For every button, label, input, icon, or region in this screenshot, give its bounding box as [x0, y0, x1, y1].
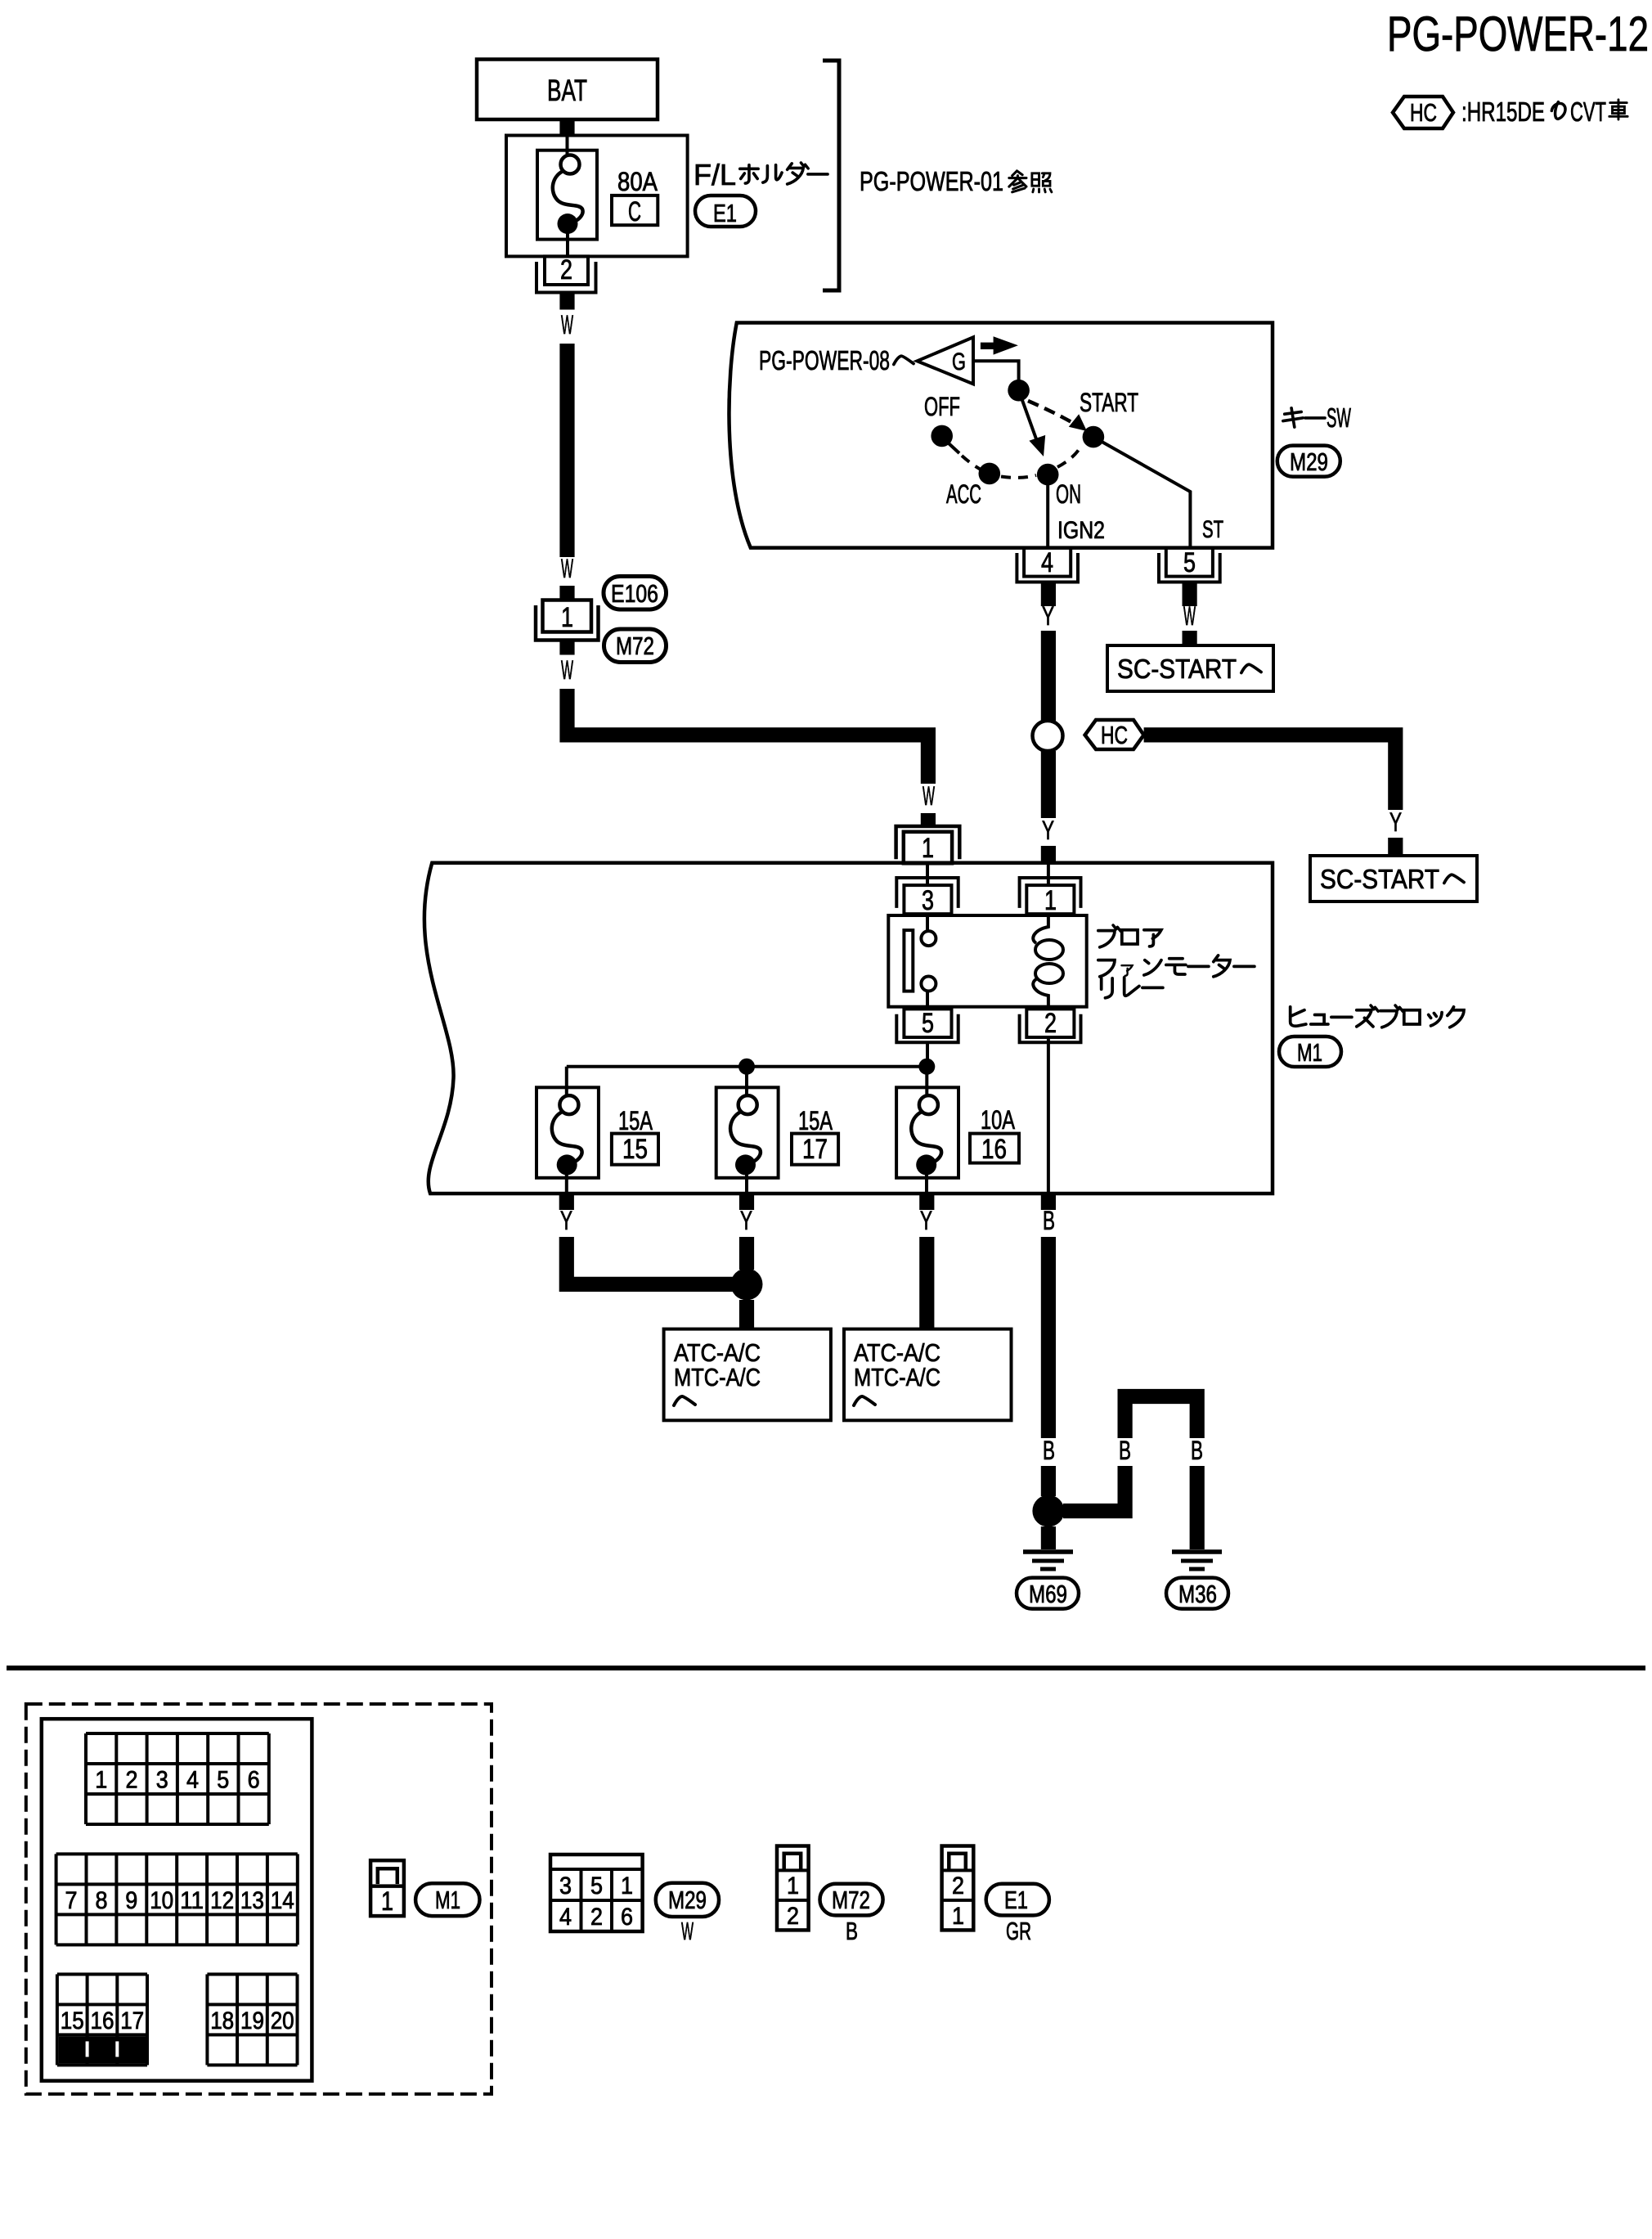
pin 4 connector IGN2 — [1017, 547, 1078, 582]
wire Y stub below pin 4 — [1041, 582, 1056, 607]
label GR under E1 — [1006, 1917, 1031, 1945]
contact ACC — [979, 463, 1001, 485]
svg-text:G: G — [952, 348, 966, 375]
svg-text:Y: Y — [560, 1206, 572, 1235]
svg-text:MTC-A/C: MTC-A/C — [674, 1363, 761, 1392]
svg-text:5: 5 — [922, 1008, 934, 1039]
svg-text:1: 1 — [1044, 885, 1057, 916]
contact ON — [1037, 464, 1059, 486]
switch arm dashed to START — [1028, 401, 1087, 431]
connector M72 oval — [604, 629, 667, 663]
svg-text:1: 1 — [561, 602, 573, 633]
connector M1 oval — [1279, 1036, 1341, 1067]
junction node bus/pin5 — [918, 1059, 935, 1075]
wire Y junction to ATC box — [739, 1300, 754, 1330]
svg-text:3: 3 — [922, 885, 934, 916]
arrow direction indicator — [981, 336, 1018, 354]
junction node B wires — [1032, 1495, 1064, 1527]
relay contact — [904, 915, 936, 1007]
svg-text:1: 1 — [381, 1886, 393, 1916]
label 15A fuse15 — [618, 1106, 653, 1135]
label Y — [1042, 816, 1054, 845]
relay pin 1 connector — [1020, 878, 1081, 916]
ground M69 — [1017, 1552, 1079, 1609]
svg-text:13: 13 — [240, 1887, 264, 1914]
label W under M29 — [681, 1917, 694, 1945]
svg-text:PG-POWER-08: PG-POWER-08 — [759, 345, 890, 375]
fuse bus line — [567, 1065, 927, 1068]
svg-text:80A: 80A — [617, 167, 658, 196]
wire bus to fuse 15 — [565, 1067, 568, 1098]
label W — [561, 655, 573, 685]
connector icon M72 pins 1 2 — [777, 1846, 809, 1931]
svg-text:PG-POWER-12: PG-POWER-12 — [1387, 7, 1649, 61]
triangle connector G — [917, 337, 973, 384]
label Y — [920, 1206, 932, 1235]
svg-text:HC: HC — [1101, 721, 1128, 749]
svg-text:PG-POWER-01: PG-POWER-01 — [860, 166, 1003, 196]
box SC-START (HC branch) — [1310, 856, 1477, 901]
label W — [561, 554, 573, 583]
svg-text:W: W — [923, 781, 935, 811]
connector M72 oval label — [820, 1884, 883, 1916]
svg-text:M29: M29 — [1290, 447, 1328, 476]
junction node bus/fuse17 — [738, 1059, 755, 1075]
svg-text:17: 17 — [120, 2007, 144, 2034]
svg-text:W: W — [681, 1917, 694, 1945]
wire Y fuse16 to ATC box 2 — [919, 1237, 934, 1329]
svg-text:W: W — [561, 554, 573, 583]
label Y — [1042, 601, 1054, 631]
svg-text:Y: Y — [740, 1206, 752, 1235]
svg-text:1: 1 — [787, 1873, 799, 1900]
svg-text:1: 1 — [621, 1873, 633, 1900]
label B arm1 — [1119, 1436, 1131, 1465]
connector icon M1 pin 1 — [370, 1860, 404, 1916]
label Y — [740, 1206, 752, 1235]
svg-text:2: 2 — [126, 1767, 138, 1794]
svg-text:M1: M1 — [1297, 1038, 1322, 1067]
svg-text:Y: Y — [920, 1206, 932, 1235]
HC tag hexagon — [1085, 720, 1144, 749]
label OFF — [924, 392, 960, 421]
contact START — [1083, 426, 1105, 448]
svg-text:15: 15 — [622, 1134, 648, 1165]
svg-text:6: 6 — [248, 1767, 260, 1794]
svg-text:2: 2 — [787, 1903, 799, 1930]
wire B junction to right arm — [1063, 1466, 1125, 1511]
label IGN2 — [1057, 517, 1105, 544]
battery BAT — [477, 60, 658, 120]
svg-text:15A: 15A — [798, 1106, 833, 1135]
fuse block layout box — [42, 1719, 312, 2080]
fuse layout grid 15-17 — [57, 1974, 147, 2065]
legend HC tag — [1393, 97, 1453, 128]
fuse 16 — [896, 1087, 958, 1194]
label W — [561, 310, 573, 339]
wire B stub below relay pin 2 — [1041, 1195, 1056, 1210]
svg-text:4: 4 — [1041, 547, 1053, 578]
separator line — [7, 1666, 1645, 1670]
fuse letter box C — [612, 196, 658, 227]
label 15A fuse17 — [798, 1106, 833, 1135]
wire pin2 inside block — [1047, 1037, 1050, 1194]
wire ON to IGN2 pin — [1046, 474, 1049, 548]
wire into relay pin 3 — [926, 865, 929, 885]
svg-text:3: 3 — [156, 1767, 168, 1794]
svg-text:ON: ON — [1056, 479, 1081, 509]
svg-text:E1: E1 — [713, 199, 737, 227]
svg-text:HC: HC — [1410, 98, 1437, 127]
fuse block box M1 — [424, 863, 1273, 1194]
label ACC — [946, 479, 981, 509]
connector icon M29 pins 3 5 1 / 4 2 6 — [550, 1855, 643, 1931]
fusible link 80A — [537, 137, 597, 256]
svg-text:4: 4 — [559, 1904, 572, 1931]
detent arc OFF-ACC-ON-START — [949, 443, 1080, 478]
relay pin 2 connector — [1020, 1008, 1081, 1042]
svg-text:ACC: ACC — [946, 479, 981, 509]
svg-text:M69: M69 — [1029, 1580, 1067, 1608]
box ATC-A/C MTC-A/C 1 — [664, 1329, 831, 1421]
svg-text:11: 11 — [180, 1887, 204, 1914]
node HC junction circle — [1033, 721, 1063, 751]
wire W stub below connector — [559, 641, 574, 655]
relay coil — [1033, 915, 1063, 1007]
svg-text:2: 2 — [952, 1873, 964, 1900]
label ST — [1202, 516, 1223, 543]
legend text :HR15DE CVT — [1461, 97, 1627, 127]
svg-text:MTC-A/C: MTC-A/C — [854, 1363, 940, 1392]
label key SW — [1283, 402, 1352, 433]
connector E106 oval — [604, 577, 667, 610]
svg-text:OFF: OFF — [924, 392, 960, 421]
fuse number box 15 — [612, 1134, 658, 1165]
label B arm2 — [1191, 1436, 1203, 1465]
ground M36 — [1166, 1552, 1228, 1609]
wire into relay pin 1 — [1047, 865, 1050, 885]
label B — [1043, 1206, 1055, 1235]
svg-text:6: 6 — [621, 1904, 633, 1931]
wire W below F/L holder — [559, 293, 574, 310]
fuse layout grid 18-20 — [207, 1974, 297, 2065]
label ON — [1056, 479, 1081, 509]
svg-text:2: 2 — [560, 254, 572, 285]
wire B resume to junction — [1041, 1466, 1056, 1496]
wire Y fuse15 elbow to junction — [567, 1237, 734, 1284]
svg-text:15A: 15A — [618, 1106, 653, 1135]
svg-text:16: 16 — [981, 1134, 1007, 1165]
wire Y stub into SC-START box 2 — [1388, 838, 1403, 856]
relay pin 3 connector — [896, 878, 958, 916]
rotor contact — [1008, 380, 1030, 402]
svg-text:W: W — [561, 310, 573, 339]
relay pin 5 connector — [896, 1008, 958, 1042]
wire W down to E106 connector — [559, 344, 574, 557]
dashed boundary box — [26, 1704, 492, 2094]
svg-text:19: 19 — [240, 2007, 264, 2034]
junction node Y wires — [731, 1268, 763, 1300]
bracket PG-POWER-01 — [823, 61, 839, 290]
wire Y stub below fuse 15 — [559, 1195, 574, 1210]
wire W stub into fuse block connector — [921, 813, 936, 826]
wire START to ST pin — [1093, 437, 1191, 548]
wire bus to fuse 16 — [925, 1067, 928, 1098]
svg-text:2: 2 — [1044, 1008, 1057, 1039]
svg-text:2: 2 — [590, 1904, 603, 1931]
svg-text::HR15DE: :HR15DE — [1461, 97, 1545, 127]
svg-text:9: 9 — [125, 1887, 137, 1914]
box SC-START (ST) — [1107, 645, 1273, 691]
title PG-POWER-12 — [1387, 7, 1649, 61]
F/L holder box E1 — [506, 136, 688, 257]
fuse layout grid 7-14 — [56, 1854, 298, 1945]
wire G to rotor — [973, 361, 1019, 381]
label Y — [560, 1206, 572, 1235]
fuse layout grid 1-6 — [86, 1733, 269, 1824]
wire Y stub below fuse 16 — [919, 1195, 934, 1210]
label W — [923, 781, 935, 811]
svg-text:W: W — [1183, 601, 1196, 631]
svg-text:Y: Y — [1389, 807, 1402, 837]
wire BAT to F/L holder — [559, 118, 574, 137]
svg-text:20: 20 — [271, 2007, 294, 2034]
label blower fan motor relay — [1098, 925, 1255, 998]
svg-text:BAT: BAT — [547, 74, 587, 107]
wire B junction to ground M69 — [1041, 1526, 1056, 1549]
fuse number box 17 — [792, 1134, 838, 1165]
switch arm solid to ON — [1020, 393, 1045, 456]
svg-text:B: B — [1043, 1206, 1055, 1235]
svg-text:M72: M72 — [832, 1886, 870, 1914]
connector icon E1 pins 2 1 — [942, 1846, 974, 1931]
pin 5 connector ST — [1159, 547, 1220, 582]
svg-text:B: B — [1043, 1436, 1055, 1465]
svg-text:5: 5 — [590, 1873, 603, 1900]
svg-text:1: 1 — [922, 833, 934, 864]
svg-text:CVT: CVT — [1570, 97, 1606, 127]
svg-text:7: 7 — [65, 1887, 78, 1914]
connector M29 oval — [1277, 446, 1340, 477]
svg-text:SC-START: SC-START — [1320, 864, 1439, 894]
label 10A fuse16 — [981, 1105, 1015, 1135]
svg-text:8: 8 — [96, 1887, 108, 1914]
connector M1 oval label — [415, 1883, 479, 1916]
fuse block entry connector 1 — [896, 826, 960, 864]
wire bus to fuse 17 — [745, 1067, 748, 1098]
label F/L holder — [694, 158, 828, 191]
svg-text:ST: ST — [1202, 516, 1223, 543]
svg-text:14: 14 — [271, 1887, 294, 1914]
wire W stub below pin 5 — [1183, 582, 1197, 607]
label PG-POWER-08 to — [759, 345, 914, 375]
svg-text:SC-START: SC-START — [1117, 654, 1237, 684]
svg-text:18: 18 — [210, 2007, 234, 2034]
svg-text:4: 4 — [186, 1767, 199, 1794]
svg-text:5: 5 — [217, 1767, 229, 1794]
wire B arm2 to ground M36 — [1190, 1466, 1205, 1549]
wire B long down — [1041, 1237, 1056, 1438]
svg-text:M29: M29 — [668, 1886, 707, 1914]
svg-text:12: 12 — [210, 1887, 234, 1914]
svg-text:10: 10 — [150, 1887, 173, 1914]
fuse number box 16 — [970, 1134, 1019, 1165]
label Y — [1389, 807, 1402, 837]
svg-text:F/L: F/L — [694, 158, 736, 191]
svg-text:1: 1 — [95, 1767, 107, 1794]
svg-text:M72: M72 — [616, 632, 654, 660]
fuse 17 — [716, 1087, 779, 1194]
svg-text:B: B — [1191, 1436, 1203, 1465]
svg-text:5: 5 — [1183, 547, 1196, 578]
label fuse block — [1291, 1005, 1464, 1027]
svg-text:B: B — [1119, 1436, 1131, 1465]
svg-text:3: 3 — [559, 1873, 572, 1900]
svg-text:E1: E1 — [1004, 1886, 1028, 1914]
label PG-POWER-01 reference — [860, 166, 1052, 196]
label START — [1080, 388, 1138, 417]
svg-text:15: 15 — [61, 2007, 84, 2034]
svg-text:W: W — [561, 655, 573, 685]
wire Y pin4 to HC node — [1041, 631, 1056, 721]
inline connector 1 E106/M72 — [536, 600, 599, 641]
wire Y stub below fuse 17 — [739, 1195, 754, 1210]
svg-text:16: 16 — [91, 2007, 114, 2034]
svg-text:E106: E106 — [611, 579, 658, 608]
svg-text:Y: Y — [1042, 601, 1054, 631]
svg-text:START: START — [1080, 388, 1138, 417]
label B under M72 — [846, 1917, 858, 1945]
connector E1 oval label — [986, 1884, 1049, 1916]
svg-text:Y: Y — [1042, 816, 1054, 845]
key switch box M29 — [729, 323, 1273, 548]
svg-text:10A: 10A — [981, 1105, 1015, 1135]
connector E1 oval — [695, 196, 756, 227]
contact OFF — [931, 425, 953, 447]
wire Y HC node down — [1041, 751, 1056, 818]
wire W stub into E106 — [559, 586, 574, 600]
svg-text:1: 1 — [952, 1903, 964, 1930]
svg-text:M1: M1 — [435, 1886, 460, 1914]
svg-text:SW: SW — [1327, 402, 1351, 433]
wire Y stub into fuse block — [1041, 846, 1056, 863]
label B — [1043, 1436, 1055, 1465]
fuse 15 — [536, 1087, 599, 1194]
svg-text:B: B — [846, 1917, 858, 1945]
connector M29 oval label — [656, 1883, 719, 1917]
relay blower fan motor relay box — [888, 915, 1086, 1007]
wire pin5 to fuse bus — [926, 1042, 929, 1067]
pin 2 connector of F/L holder — [536, 254, 596, 293]
wire W stub into SC-START box — [1183, 631, 1197, 645]
svg-text:C: C — [628, 196, 641, 227]
svg-text:M36: M36 — [1178, 1580, 1217, 1608]
wire Y fuse17 down — [739, 1237, 754, 1270]
svg-text:17: 17 — [802, 1134, 828, 1165]
label W — [1183, 601, 1196, 631]
box ATC-A/C MTC-A/C 2 — [844, 1329, 1012, 1421]
label 80A — [617, 167, 658, 196]
svg-text:IGN2: IGN2 — [1057, 517, 1105, 544]
wire B inverted U top — [1125, 1396, 1197, 1438]
wire W elbow to fuse block — [568, 689, 928, 784]
wire Y HC to SC-START branch — [1144, 735, 1396, 810]
svg-text:GR: GR — [1006, 1917, 1031, 1945]
